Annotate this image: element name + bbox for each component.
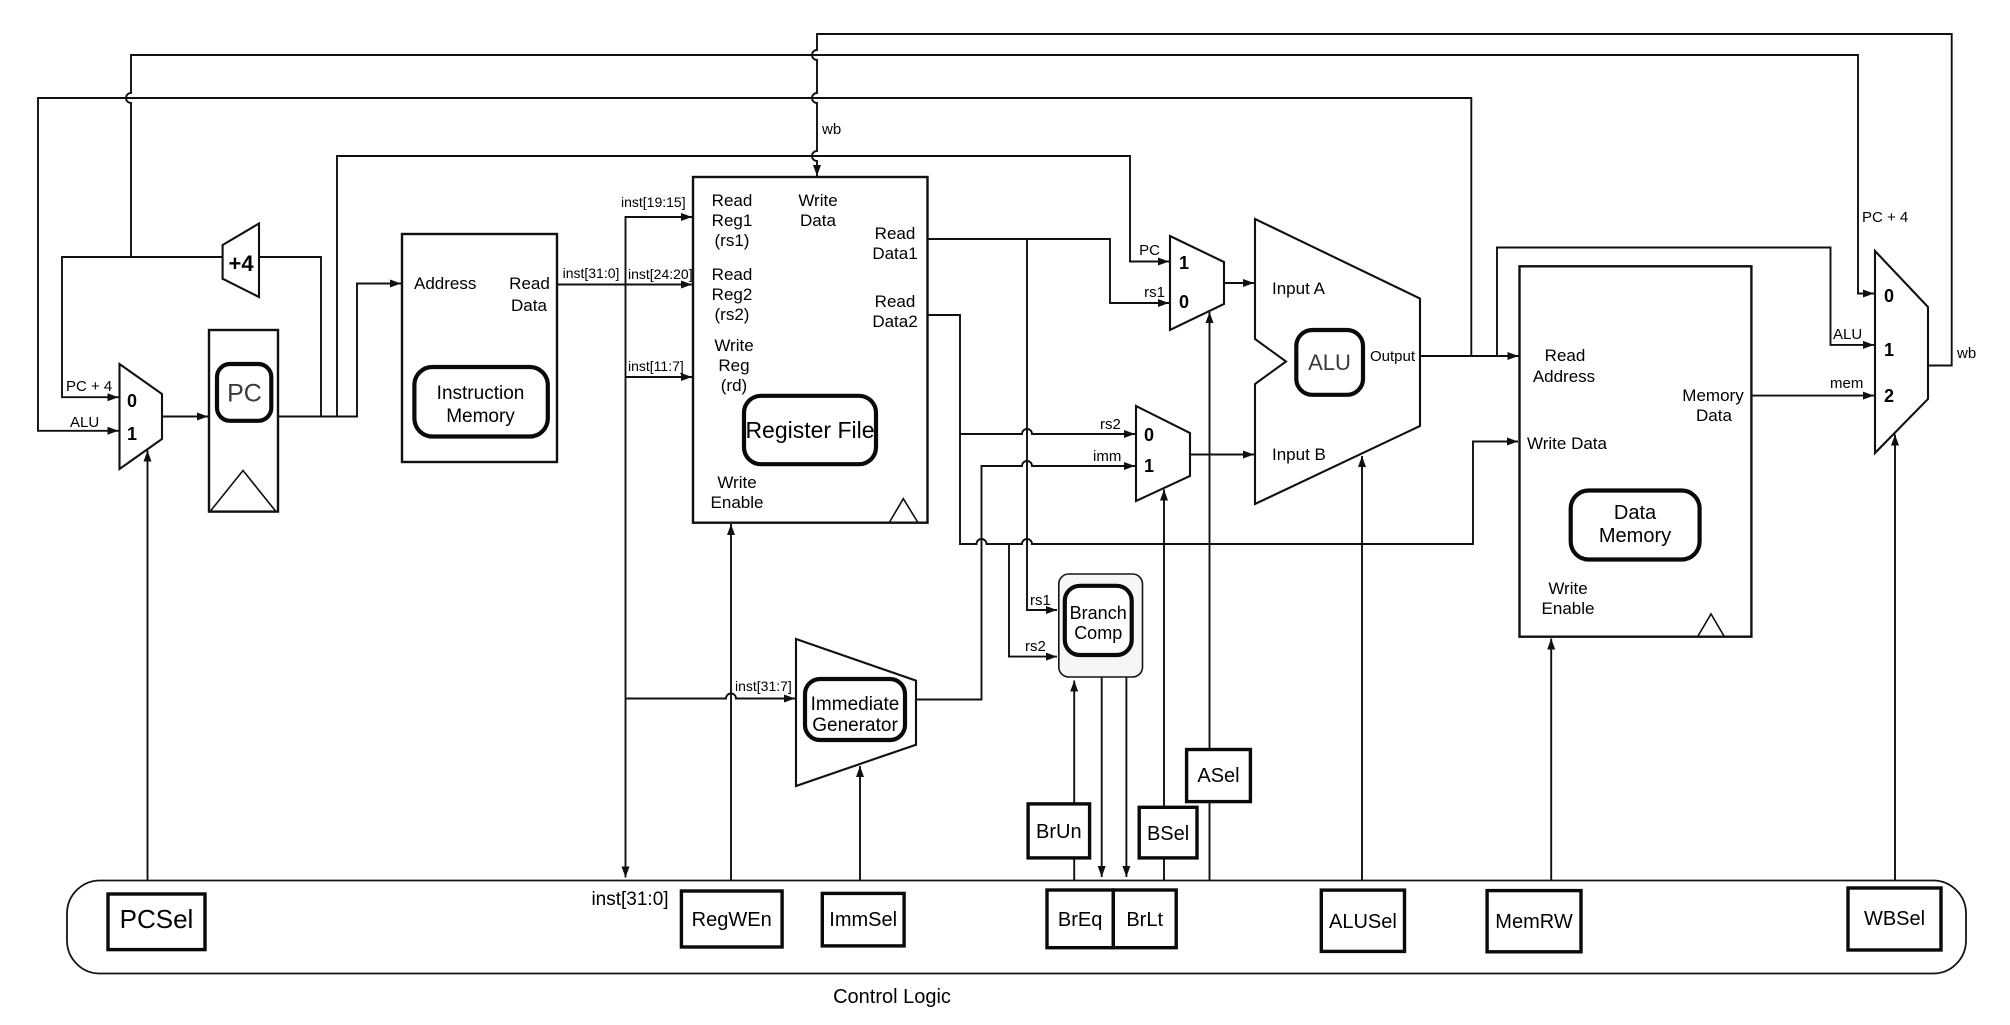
svg-text:Enable: Enable (1542, 599, 1595, 618)
wire MemRW (control to Data Memory Write Enable) (1550, 639, 1552, 882)
svg-text:ALU: ALU (70, 414, 99, 431)
svg-text:Memory: Memory (1599, 525, 1671, 547)
svg-text:Address: Address (414, 274, 476, 293)
svg-text:Read: Read (875, 292, 916, 311)
wire +4 output (adder to PCSel mux input 0) (62, 257, 223, 397)
wire Read Data2 (rs2) to Data Memory Write Data (928, 315, 1519, 544)
wire ALU feedback (ALU output to PCSel mux input 1) (38, 98, 1471, 431)
svg-text:Write Data: Write Data (1527, 434, 1608, 453)
svg-text:inst[19:15]: inst[19:15] (621, 194, 686, 210)
signal BrLt (1113, 890, 1176, 948)
svg-text:Address: Address (1533, 367, 1595, 386)
wire Read Data1 (rs1) to ASel mux input 0 (928, 239, 1170, 303)
wire mem (Memory Data to WBSel mux input 2) (1751, 395, 1874, 397)
wire BrEq (Branch Comp to control) (1101, 678, 1103, 878)
signal MemRW (1487, 891, 1581, 952)
svg-text:1: 1 (127, 424, 137, 444)
wire ALU output to WBSel mux input 1 (1497, 248, 1874, 357)
svg-text:Data: Data (1696, 406, 1732, 425)
svg-text:rs1: rs1 (1144, 284, 1165, 301)
wire rs1 to Branch Comp (1027, 239, 1057, 610)
svg-text:Immediate: Immediate (811, 694, 900, 715)
block Data Memory (1520, 266, 1752, 636)
svg-text:Read: Read (712, 191, 753, 210)
signal ALUSel (1321, 890, 1404, 951)
svg-text:Comp: Comp (1074, 623, 1122, 643)
wire BSel mux output to ALU Input B (1190, 454, 1254, 456)
svg-text:inst[24:20]: inst[24:20] (628, 266, 693, 282)
svg-text:Data: Data (800, 211, 836, 230)
wire PC+4 feedback (adder output to WBSel mux input 0) (126, 55, 1874, 294)
svg-text:0: 0 (127, 391, 137, 411)
wire rs2 to BSel mux input 0 (960, 429, 1135, 434)
svg-text:rs2: rs2 (1100, 416, 1121, 433)
wire WBSel (control to WBSel mux) (1894, 435, 1896, 882)
block Immediate Generator (796, 639, 916, 786)
block Branch Comp (1059, 574, 1143, 677)
svg-text:BrUn: BrUn (1036, 821, 1082, 843)
svg-text:Read: Read (1545, 346, 1586, 365)
svg-text:Input A: Input A (1272, 279, 1326, 298)
mux WBSel (1875, 251, 1928, 453)
svg-text:inst[31:0]: inst[31:0] (591, 889, 668, 910)
register PC (209, 330, 278, 512)
wire PCSel (control to PCSel mux) (147, 451, 149, 882)
svg-text:PC + 4: PC + 4 (66, 378, 112, 395)
svg-text:inst[31:0]: inst[31:0] (563, 265, 620, 281)
block Register File (693, 177, 928, 523)
signal WBSel (1848, 888, 1941, 950)
svg-text:wb: wb (821, 121, 841, 138)
svg-text:Reg2: Reg2 (712, 285, 753, 304)
signal PCSel (108, 894, 205, 950)
svg-text:Data: Data (1614, 502, 1657, 524)
svg-text:RegWEn: RegWEn (692, 909, 772, 931)
svg-text:Control Logic: Control Logic (833, 986, 951, 1008)
svg-text:Reg1: Reg1 (712, 211, 753, 230)
svg-text:mem: mem (1830, 375, 1863, 392)
svg-text:WBSel: WBSel (1864, 908, 1925, 930)
mux PCSel (120, 364, 163, 469)
wire inst[19:15] to Read Reg1 (626, 217, 693, 285)
wire instruction bus (Read Data to Read Reg2) (557, 284, 692, 286)
alu ALU (1255, 219, 1420, 504)
svg-text:inst[31:7]: inst[31:7] (735, 678, 792, 694)
wire ALU output to Data Memory Read Address (1420, 355, 1519, 357)
wire RegWEn (control to Register File Write Enable) (730, 524, 732, 881)
svg-text:ASel: ASel (1197, 765, 1239, 787)
svg-text:0: 0 (1884, 286, 1894, 306)
svg-text:ALU: ALU (1833, 326, 1862, 343)
wire PCSel mux output to PC (162, 416, 208, 418)
svg-text:1: 1 (1144, 456, 1154, 476)
svg-text:Generator: Generator (812, 715, 898, 736)
wire rs2 to Branch Comp (1009, 544, 1057, 657)
svg-text:BrLt: BrLt (1126, 909, 1163, 931)
svg-text:PC: PC (227, 380, 262, 408)
block Control Logic container (67, 881, 1966, 1009)
svg-text:ALU: ALU (1308, 350, 1351, 375)
svg-text:rs1: rs1 (1030, 592, 1051, 609)
svg-text:Output: Output (1370, 348, 1416, 365)
svg-text:rs2: rs2 (1025, 638, 1046, 655)
adder +4 (223, 224, 259, 298)
signal BrEq (1047, 890, 1113, 948)
svg-text:0: 0 (1179, 292, 1189, 312)
svg-text:Branch: Branch (1070, 603, 1127, 623)
svg-text:MemRW: MemRW (1495, 911, 1573, 933)
svg-text:Memory: Memory (1682, 386, 1744, 405)
mux BSel (1136, 406, 1190, 501)
svg-text:Write: Write (717, 473, 756, 492)
svg-text:PC: PC (1139, 242, 1160, 259)
wire ASel mux output to ALU Input A (1224, 282, 1254, 284)
svg-text:Instruction: Instruction (437, 383, 525, 404)
svg-text:(rs1): (rs1) (715, 231, 750, 250)
wire ASel (control to ASel mux) (1209, 312, 1211, 881)
mux ASel (1170, 236, 1224, 330)
svg-text:1: 1 (1884, 340, 1894, 360)
wire imm (Immediate Generator output to BSel mux input 1) (916, 461, 1135, 700)
svg-text:0: 0 (1144, 425, 1154, 445)
wire wb writeback (WBSel mux output to Register File Write Data) (812, 34, 1952, 366)
svg-text:Write: Write (714, 336, 753, 355)
svg-text:Read: Read (712, 265, 753, 284)
svg-text:Reg: Reg (718, 356, 749, 375)
signal ImmSel (822, 893, 904, 946)
svg-text:Write: Write (1548, 579, 1587, 598)
svg-text:ImmSel: ImmSel (829, 909, 897, 931)
wire PC to ASel mux input 1 (337, 156, 1169, 417)
svg-text:2: 2 (1884, 386, 1894, 406)
svg-text:(rs2): (rs2) (715, 305, 750, 324)
svg-text:ALUSel: ALUSel (1329, 911, 1397, 933)
svg-text:BrEq: BrEq (1058, 909, 1102, 931)
svg-text:Data: Data (511, 296, 547, 315)
wire ImmSel (control to Immediate Generator) (859, 766, 861, 881)
wire inst vertical to control logic (inst[31:0]) (625, 285, 627, 878)
wire ALUSel (control to ALU) (1361, 456, 1363, 881)
svg-text:Memory: Memory (446, 406, 515, 427)
svg-text:Input B: Input B (1272, 445, 1326, 464)
svg-text:Read: Read (875, 224, 916, 243)
svg-text:Register File: Register File (745, 417, 874, 443)
svg-text:Write: Write (798, 191, 837, 210)
wire BSel (control to BSel mux) (1163, 490, 1165, 882)
wire inst[11:7] to Write Reg (626, 376, 693, 378)
svg-text:BSel: BSel (1147, 823, 1189, 845)
svg-text:+4: +4 (229, 251, 255, 276)
signal ASel (1187, 750, 1251, 802)
svg-text:Read: Read (509, 274, 550, 293)
svg-text:wb: wb (1956, 345, 1976, 362)
svg-text:imm: imm (1093, 448, 1121, 465)
svg-text:Data2: Data2 (872, 312, 917, 331)
svg-text:inst[11:7]: inst[11:7] (628, 358, 684, 374)
svg-text:1: 1 (1179, 253, 1189, 273)
svg-text:(rd): (rd) (721, 376, 747, 395)
wire BrLt (Branch Comp to control) (1125, 678, 1127, 878)
svg-text:PCSel: PCSel (120, 904, 194, 934)
svg-text:PC + 4: PC + 4 (1862, 209, 1908, 226)
signal BrUn (1028, 804, 1090, 858)
wire BrUn (control to Branch Comp) (1073, 681, 1075, 882)
signal BSel (1139, 807, 1197, 858)
wire PC output (259, 257, 401, 417)
block Instruction Memory (402, 234, 557, 462)
signal RegWEn (681, 891, 782, 947)
wire inst[31:7] to Immediate Generator (626, 694, 796, 699)
svg-text:Data1: Data1 (872, 244, 917, 263)
svg-text:Enable: Enable (711, 493, 764, 512)
